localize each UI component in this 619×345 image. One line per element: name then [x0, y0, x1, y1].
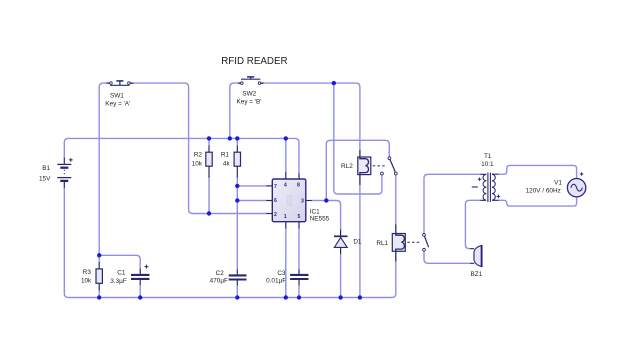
pin 1: [285, 222, 287, 229]
wire: T1 primary bottom left and down to BZ1 top lead: [465, 200, 480, 248]
node: RL2 coil ground: [358, 295, 362, 299]
svg-text:IC1: IC1: [310, 208, 320, 215]
node: pin7 on R1 branch: [235, 184, 239, 188]
wire: RL1 switch common up and right to T1 primary top: [424, 174, 480, 233]
svg-text:SW1: SW1: [110, 92, 124, 99]
transformer T1 10:1: [472, 153, 500, 202]
pin 2: [266, 213, 272, 215]
wire: R1 top lead from rail: [236, 138, 238, 145]
svg-text:1: 1: [284, 214, 287, 220]
pin 8: [298, 173, 300, 179]
svg-text:T1: T1: [484, 153, 492, 160]
node: C1 ground: [138, 295, 142, 299]
pin 3: [306, 200, 312, 202]
AC source V1 120V/60Hz: [526, 172, 586, 197]
capacitor C3 0.01uF: [266, 269, 308, 285]
svg-text:3.3µF: 3.3µF: [110, 278, 127, 285]
node: pin4 on rail: [284, 136, 288, 140]
svg-text:10k: 10k: [192, 160, 203, 167]
svg-text:RFID READER: RFID READER: [221, 56, 287, 67]
capacitor C1 3.3uF (electrolytic): [110, 265, 149, 286]
wire: SW2 right lead to RL2 coil top: [261, 83, 360, 150]
wire: V1 bottom to T1 secondary bottom: [499, 197, 577, 206]
svg-text:SW2: SW2: [242, 90, 256, 97]
wire: D1 bottom to ground rail: [340, 254, 342, 297]
wire: pin4 from top rail: [285, 138, 287, 172]
svg-text:5: 5: [298, 214, 301, 220]
relay RL1 contact: [407, 233, 428, 251]
wire: pin3 to node: [312, 200, 326, 202]
svg-text:10:1: 10:1: [481, 161, 494, 168]
svg-text:RL1: RL1: [376, 240, 388, 247]
node: C2 ground: [235, 295, 239, 299]
wire: R2 top lead from rail: [208, 138, 210, 145]
pin 4: [285, 172, 287, 179]
wire: SW1 left lead down to R3/C1 node: [99, 83, 110, 262]
pin 5: [298, 222, 300, 229]
wire: pin6 to R1 branch: [237, 200, 266, 202]
pin 6: [266, 200, 272, 202]
wire: R3 node right to C1 top: [99, 255, 140, 268]
relay RL1 coil: [376, 224, 405, 261]
svg-text:0.01µF: 0.01µF: [266, 277, 286, 284]
wire: pin3 node up over to RL2 switch common: [326, 140, 389, 200]
node: SW2 left on rail: [228, 136, 232, 140]
svg-text:4: 4: [284, 182, 287, 188]
switch SW2 (Key = 'B'): [237, 77, 264, 106]
primary winding: [480, 174, 486, 200]
node: R2 top on rail: [207, 136, 211, 140]
svg-text:Key = 'A': Key = 'A': [105, 101, 130, 108]
wire: pin3 node right and down through D1: [326, 201, 340, 230]
node: R1 top on rail: [235, 136, 239, 140]
svg-text:BZ1: BZ1: [471, 271, 483, 278]
wire: C3 bottom to ground rail: [298, 285, 300, 297]
svg-text:C2: C2: [216, 270, 225, 277]
wire: pin5 down to C3: [298, 229, 300, 269]
node: R3 ground: [97, 295, 101, 299]
svg-text:R3: R3: [83, 269, 92, 276]
wire: pin7 to R1 branch: [237, 185, 266, 187]
pin 7: [266, 185, 272, 187]
diode D1: [334, 229, 362, 254]
svg-text:V1: V1: [554, 179, 562, 186]
svg-text:Key = 'B': Key = 'B': [237, 98, 262, 105]
resistor R3 10k: [81, 262, 102, 291]
wire: R1 bottom through pin7/pin6 nodes down to C2: [236, 177, 238, 270]
svg-text:NE555: NE555: [310, 216, 330, 223]
svg-text:4k: 4k: [223, 160, 231, 167]
wire: R2 bottom lead to pin2 wire: [208, 177, 210, 214]
relay RL2 coil: [341, 150, 371, 185]
node: R3/C1 top: [97, 253, 101, 257]
relay RL2 contact: [373, 157, 397, 175]
wire: RL1 switch NO down and right to BZ1 bottom lead: [424, 251, 470, 263]
svg-text:555: 555: [285, 195, 292, 207]
svg-text:R2: R2: [194, 152, 203, 159]
primary centre tap stub: [472, 186, 478, 188]
svg-text:6: 6: [274, 198, 277, 204]
wire: T1 secondary top to V1 top: [499, 165, 577, 178]
node: pin6 on R1 branch: [235, 198, 239, 202]
wire: C2 bottom to ground rail: [236, 286, 238, 298]
svg-text:10k: 10k: [81, 278, 92, 285]
svg-text:3: 3: [301, 198, 304, 204]
buzzer BZ1: [470, 245, 483, 278]
battery B1: [39, 158, 73, 189]
node: D1 ground: [338, 295, 342, 299]
node: pin3 output: [324, 198, 328, 202]
svg-text:C1: C1: [117, 270, 126, 277]
switch SW1 (Key = 'A'): [105, 81, 133, 108]
svg-text:470µF: 470µF: [210, 277, 228, 284]
wire: battery+ up to top rail, right to pin8 corner: [64, 138, 299, 172]
resistor R1 4k: [221, 145, 241, 177]
wire: C1 bottom to ground rail: [139, 285, 141, 297]
wire: SW2 node down, right, up to RL2 NC contact: [334, 83, 382, 194]
svg-text:120V / 60Hz: 120V / 60Hz: [526, 188, 561, 195]
op-amp timer IC1 NE555: [266, 172, 329, 229]
wire: pin1 wire overlay across C3 label: [285, 263, 287, 290]
node: R2 bottom on pin2 wire: [207, 211, 211, 215]
secondary winding: [492, 174, 499, 200]
svg-text:2: 2: [274, 212, 277, 218]
wire: pin1 to ground rail: [285, 229, 287, 298]
svg-text:RL2: RL2: [341, 163, 353, 170]
wire: RL2 NO contact down to RL1 coil top: [395, 175, 397, 224]
wire: SW2 left lead down to top rail: [230, 83, 241, 138]
svg-text:D1: D1: [353, 238, 362, 245]
node: pin1 ground: [284, 295, 288, 299]
wire: SW1 right lead down and right to IC pin 2: [130, 83, 266, 213]
capacitor C2 470uF: [210, 269, 247, 285]
node: C3 ground: [297, 295, 301, 299]
svg-text:C3: C3: [277, 270, 286, 277]
svg-text:B1: B1: [42, 165, 50, 172]
wire: battery- down to bottom ground rail, right to RL1 coil bottom: [64, 188, 396, 298]
svg-text:R1: R1: [221, 152, 230, 159]
svg-text:8: 8: [297, 182, 300, 188]
wire: RL2 coil bottom to ground rail: [359, 185, 361, 298]
node: SW2 right branch: [332, 81, 336, 85]
svg-text:15V: 15V: [39, 175, 51, 182]
wire: R3 bottom lead to ground rail: [98, 290, 100, 297]
resistor R2 10k: [192, 145, 213, 177]
svg-text:7: 7: [274, 184, 277, 190]
